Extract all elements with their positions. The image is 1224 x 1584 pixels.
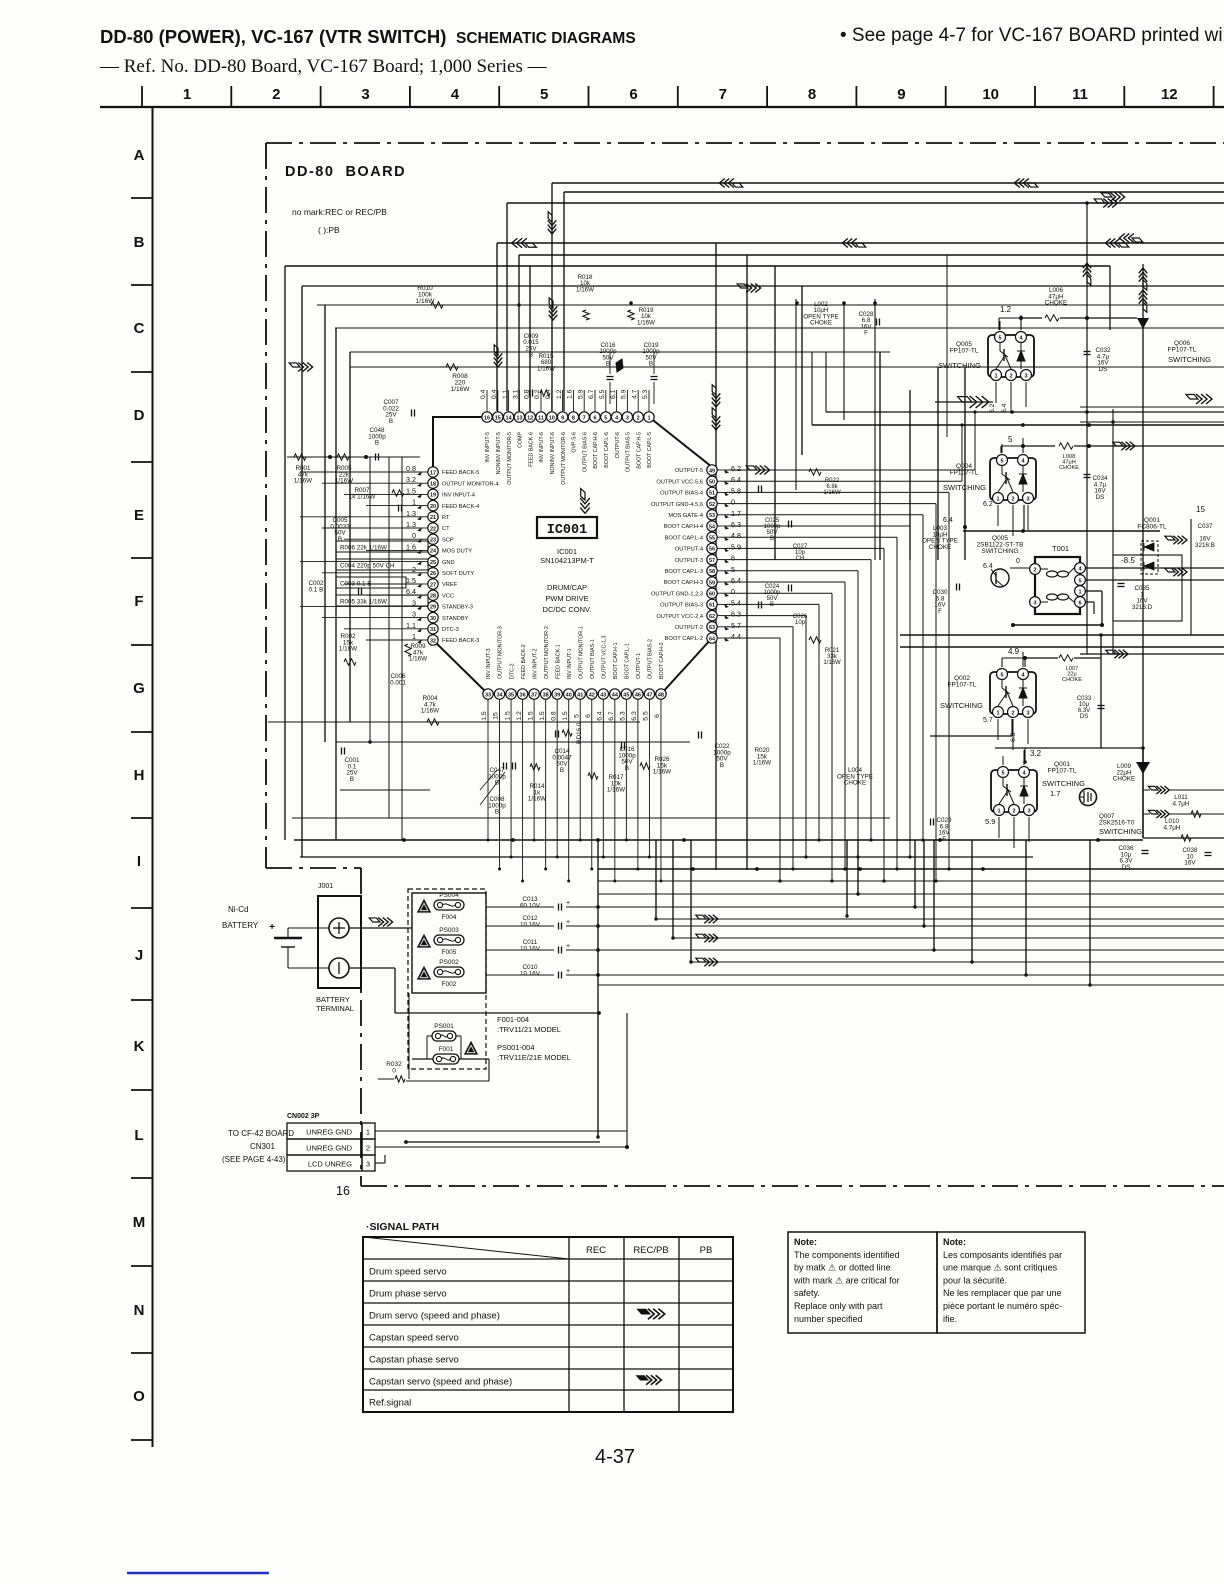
svg-text:CHOKE: CHOKE [810,320,832,327]
svg-text:F: F [134,593,143,610]
svg-text:F001-004: F001-004 [497,1015,529,1024]
svg-text:7: 7 [583,415,586,421]
svg-text:Note:: Note: [794,1237,817,1247]
svg-text:BOOT CAP.H-6: BOOT CAP.H-6 [593,432,599,469]
svg-text:0.001: 0.001 [390,679,406,686]
svg-text:4.7: 4.7 [631,389,638,399]
svg-text:53: 53 [709,513,715,519]
svg-text:6.7: 6.7 [588,389,595,399]
svg-text:PS001: PS001 [434,1023,454,1030]
svg-text:ifie.: ifie. [943,1314,957,1324]
svg-text:15: 15 [495,415,501,421]
svg-text:1.2: 1.2 [1000,305,1012,314]
svg-text:FEED BACK-3: FEED BACK-3 [442,638,479,644]
svg-text:SCP: SCP [442,537,454,543]
svg-text:F: F [864,330,868,337]
svg-text:1.5: 1.5 [481,711,488,721]
svg-text:T001: T001 [1052,544,1069,553]
svg-text:Drum servo (speed and phase): Drum servo (speed and phase) [369,1311,500,1322]
svg-text:DS: DS [1096,494,1105,501]
svg-text:44: 44 [612,692,619,698]
svg-text:5.7: 5.7 [983,717,993,724]
svg-text:6.1: 6.1 [610,389,617,399]
svg-text:PS004: PS004 [439,892,459,899]
svg-text:10 16V: 10 16V [520,945,541,952]
svg-text:B: B [770,536,774,542]
svg-text:PB: PB [700,1245,713,1256]
svg-text:6: 6 [654,714,661,718]
svg-text:OUTPUT MONITOR-5: OUTPUT MONITOR-5 [507,432,513,485]
svg-text:5.9: 5.9 [985,817,995,826]
svg-text:UNREG GND: UNREG GND [306,1144,352,1153]
svg-text:38: 38 [543,692,549,698]
svg-text:1/16W: 1/16W [823,490,841,496]
svg-text:59: 59 [709,580,715,586]
svg-text:BOOT CAP.L-3: BOOT CAP.L-3 [665,569,703,575]
svg-text:PWM DRIVE: PWM DRIVE [545,594,588,603]
svg-text:40: 40 [566,692,572,698]
svg-text:B: B [606,361,610,368]
svg-text:by matk ⚠ or dotted line: by matk ⚠ or dotted line [794,1263,891,1273]
svg-text:CH: CH [796,556,805,562]
svg-text:1: 1 [1078,589,1081,595]
svg-text:( ):PB: ( ):PB [318,225,340,235]
svg-text:5: 5 [540,86,548,103]
svg-text:F005: F005 [442,949,457,956]
svg-text:IC001: IC001 [547,523,588,538]
svg-text:1/16W: 1/16W [537,365,555,372]
svg-text:+: + [566,900,570,907]
svg-text:Capstan servo (speed and phase: Capstan servo (speed and phase) [369,1377,512,1388]
svg-text:22: 22 [430,526,436,532]
svg-text:6.7: 6.7 [608,711,615,721]
svg-text:CHOKE: CHOKE [1059,465,1079,471]
svg-text::TRV11/21 MODEL: :TRV11/21 MODEL [497,1025,561,1034]
svg-text:5: 5 [998,335,1001,341]
svg-text:25: 25 [430,560,436,566]
svg-text:— Ref. No. DD-80 Board, VC-167: — Ref. No. DD-80 Board, VC-167 Board; 1,… [99,56,548,77]
svg-text:BATTERY: BATTERY [222,921,259,930]
svg-text:F: F [938,608,942,615]
svg-text:FEED BACK-4: FEED BACK-4 [442,504,479,510]
svg-text:INV INPUT-1: INV INPUT-1 [567,648,573,679]
svg-text:pour la sécurité.: pour la sécurité. [943,1275,1007,1285]
svg-text:62: 62 [709,614,715,620]
svg-text:2: 2 [1033,567,1036,573]
svg-text:1: 1 [647,415,650,421]
svg-text:SWITCHING: SWITCHING [938,361,981,370]
svg-text:B: B [375,440,379,447]
svg-text:8: 8 [572,415,575,421]
svg-text:31: 31 [430,627,436,633]
svg-text:with mark ⚠ are critical for: with mark ⚠ are critical for [793,1275,900,1285]
svg-text:FP107-TL: FP107-TL [948,682,977,689]
svg-text:5.7: 5.7 [731,621,741,630]
svg-text:Ref.signal: Ref.signal [369,1398,411,1409]
svg-text:• See page 4-7 for VC-167 BOAR: • See page 4-7 for VC-167 BOARD printed … [840,25,1224,46]
svg-text:PS002: PS002 [439,959,459,966]
svg-text:1/16W: 1/16W [294,478,312,485]
svg-text:43: 43 [600,692,606,698]
svg-text:6.4: 6.4 [731,576,741,585]
svg-text:FP107-TL: FP107-TL [1168,347,1197,354]
svg-text:FP107-TL: FP107-TL [950,348,979,355]
svg-text:OUTPUT-3: OUTPUT-3 [675,558,703,564]
svg-text:OUTPUT GND-4,5,6: OUTPUT GND-4,5,6 [651,502,703,508]
svg-text:E: E [134,507,144,524]
svg-text:OUTPUT-2: OUTPUT-2 [675,625,703,631]
svg-text:B: B [338,536,342,543]
svg-text:1/16W: 1/16W [607,787,625,794]
svg-text:4.7μH: 4.7μH [1164,824,1181,831]
svg-text:11: 11 [1072,86,1088,103]
svg-text:6.2: 6.2 [731,464,741,473]
svg-text:+: + [566,919,570,926]
svg-text:-8.5: -8.5 [1121,556,1135,565]
svg-text:CHOKE: CHOKE [929,544,951,551]
svg-text:C004 220p 50V CH: C004 220p 50V CH [340,563,395,570]
svg-text:Replace only with part: Replace only with part [794,1301,883,1311]
svg-text:32: 32 [430,638,436,644]
svg-text:3: 3 [1026,710,1029,716]
svg-text:0.4: 0.4 [480,389,487,399]
svg-text:no mark:REC or REC/PB: no mark:REC or REC/PB [292,207,387,217]
svg-text:CHOKE: CHOKE [1113,776,1135,783]
svg-text:28: 28 [430,594,436,600]
svg-text:K: K [134,1038,145,1055]
svg-text:0.1 B: 0.1 B [309,586,324,593]
svg-text:DD-80 (POWER), VC-167 (VTR SWI: DD-80 (POWER), VC-167 (VTR SWITCH) [100,26,446,47]
svg-text:SN104213PM-T: SN104213PM-T [540,556,594,565]
svg-text:17: 17 [430,470,436,476]
svg-text:10 16V: 10 16V [520,921,541,928]
svg-text:30: 30 [430,616,436,622]
svg-text:number specified: number specified [794,1314,863,1324]
svg-text:CHOKE: CHOKE [844,780,866,787]
svg-text:37: 37 [531,692,537,698]
svg-text:DD-80 BOARD: DD-80 BOARD [285,164,406,180]
svg-text:6.2: 6.2 [983,501,993,508]
svg-text:21: 21 [430,515,436,521]
svg-text:60 10V: 60 10V [520,902,541,909]
svg-text:19: 19 [430,493,436,499]
svg-text:BOOT CAP.L-5: BOOT CAP.L-5 [647,432,653,468]
svg-text:13: 13 [516,415,522,421]
svg-text:1/16W: 1/16W [637,319,655,326]
svg-text:4.7μH: 4.7μH [1173,800,1190,807]
svg-text:9: 9 [561,415,564,421]
svg-text:Capstan speed servo: Capstan speed servo [369,1333,459,1344]
svg-text:SWITCHING: SWITCHING [943,483,986,492]
svg-text:Les composants identifiés par: Les composants identifiés par [943,1250,1062,1260]
svg-text:OUTPUT MONITOR-1: OUTPUT MONITOR-1 [578,626,584,679]
svg-text:OUTPUT VCC-2,4: OUTPUT VCC-2,4 [656,614,703,620]
svg-text:FEED BACK-5: FEED BACK-5 [442,470,479,476]
svg-text:20: 20 [430,504,436,510]
svg-text:TO CF-42 BOARD: TO CF-42 BOARD [228,1129,294,1138]
svg-text:FEED BACK-2: FEED BACK-2 [521,644,527,679]
svg-text:COMP: COMP [518,432,524,448]
svg-text:1.5: 1.5 [527,711,534,721]
svg-text:52: 52 [709,502,715,508]
svg-text:0.4: 0.4 [545,389,552,399]
svg-text:5.3: 5.3 [620,711,627,721]
svg-text:42: 42 [589,692,595,698]
svg-text:3216:D: 3216:D [1132,604,1153,611]
svg-text:4.4: 4.4 [731,632,741,641]
svg-text:DS: DS [1122,864,1131,871]
svg-text:12: 12 [527,415,533,421]
svg-text:Ni-Cd: Ni-Cd [228,905,248,914]
svg-text:SCHEMATIC DIAGRAMS: SCHEMATIC DIAGRAMS [456,30,636,47]
svg-text:OUTPUT BIAS-6: OUTPUT BIAS-6 [582,432,588,472]
svg-text:M: M [133,1214,146,1231]
svg-text:2: 2 [272,86,280,103]
svg-text:6: 6 [593,415,596,421]
svg-text:5: 5 [1000,672,1003,678]
svg-text:B: B [134,234,145,251]
svg-text:TERMINAL: TERMINAL [316,1004,354,1013]
svg-text:MOS DUTY: MOS DUTY [442,549,472,555]
svg-text:A: A [134,147,145,164]
svg-text:Capstan phase servo: Capstan phase servo [369,1355,459,1366]
svg-text:MOS GATE-4: MOS GATE-4 [668,513,703,519]
svg-text:0.8: 0.8 [550,711,557,721]
svg-text:DS: DS [1099,366,1108,373]
svg-text:DRUM/CAP: DRUM/CAP [547,583,587,592]
svg-text:3: 3 [366,1160,370,1169]
svg-text:16V: 16V [1184,860,1196,867]
svg-text:6: 6 [1078,600,1081,606]
svg-text:6: 6 [731,554,735,563]
svg-text:6.4: 6.4 [731,475,741,484]
svg-text:23: 23 [430,538,436,544]
svg-text:5: 5 [573,714,580,718]
svg-text:CHOKE: CHOKE [1062,677,1082,683]
svg-text:51: 51 [709,491,715,497]
svg-text:PS003: PS003 [439,927,459,934]
svg-text:OUTPUT MONITOR-3: OUTPUT MONITOR-3 [498,626,504,679]
svg-text:J: J [135,947,143,964]
svg-text:5: 5 [604,415,607,421]
svg-text:8: 8 [808,86,816,103]
svg-text:1/16W: 1/16W [753,760,771,767]
svg-text:1/16W: 1/16W [339,646,357,653]
svg-text:1.1: 1.1 [502,389,509,399]
svg-text:FEED BACK-6: FEED BACK-6 [528,432,534,467]
svg-text:UNREG GND: UNREG GND [306,1128,352,1137]
svg-text:3.2: 3.2 [1030,749,1042,758]
svg-text:1/16W: 1/16W [823,660,841,666]
svg-text:5.9: 5.9 [621,389,628,399]
svg-text:F: F [942,836,946,843]
svg-text:OUTPUT-1: OUTPUT-1 [636,653,642,679]
svg-text:F004: F004 [442,914,457,921]
svg-text:OUTPUT-6: OUTPUT-6 [615,432,621,458]
svg-text:SWITCHING: SWITCHING [1042,779,1085,788]
svg-text:1/16W: 1/16W [451,386,471,393]
svg-text:DS: DS [1080,714,1088,720]
svg-text:OUTPUT MONITOR-4: OUTPUT MONITOR-4 [442,481,499,487]
svg-text:46: 46 [635,692,641,698]
svg-text:B: B [560,767,564,774]
svg-text:SWITCHING: SWITCHING [1168,355,1211,364]
svg-text:OUTPUT GND-1,2,3: OUTPUT GND-1,2,3 [651,591,703,597]
svg-text:OUTPUT BIAS-5: OUTPUT BIAS-5 [626,432,632,472]
svg-text:2: 2 [637,415,640,421]
svg-text:BOOT CAP.L-2: BOOT CAP.L-2 [665,636,703,642]
svg-text:2: 2 [1009,373,1012,379]
svg-text:OUTPUT MONITOR-6: OUTPUT MONITOR-6 [561,432,567,485]
svg-text:3: 3 [626,415,629,421]
svg-text:0.8: 0.8 [523,389,530,399]
svg-text:6.4: 6.4 [597,711,604,721]
svg-text:H: H [134,767,145,784]
svg-text:15: 15 [493,712,500,720]
svg-text:6.4: 6.4 [983,563,993,570]
svg-text:BOOT CAP.H-3: BOOT CAP.H-3 [664,580,703,586]
svg-text:GND: GND [442,560,455,566]
svg-text:BOOT CAP.L-6: BOOT CAP.L-6 [604,432,610,468]
svg-text:10: 10 [549,415,555,421]
svg-text:CN301: CN301 [250,1142,275,1151]
svg-text:SWITCHING: SWITCHING [940,701,983,710]
svg-text:B: B [495,809,499,816]
svg-text:FP107-TL: FP107-TL [950,470,979,477]
svg-text:64: 64 [709,636,716,642]
svg-text:63: 63 [709,625,715,631]
svg-text:60: 60 [709,592,715,598]
svg-text:DC/DC CONV.: DC/DC CONV. [543,605,592,614]
svg-text:REC: REC [586,1245,606,1256]
svg-text:5: 5 [1078,578,1081,584]
svg-text:50: 50 [709,480,715,486]
svg-text:OUTPUT BIAS-1: OUTPUT BIAS-1 [590,639,596,679]
svg-text:The components identified: The components identified [794,1250,900,1260]
svg-text:5.4: 5.4 [731,598,741,607]
svg-text:BOOT CAP.L-4: BOOT CAP.L-4 [665,535,703,541]
svg-text:·SIGNAL PATH: ·SIGNAL PATH [366,1221,439,1233]
svg-text:1/16W: 1/16W [528,796,546,803]
svg-text:STANDBY-3: STANDBY-3 [442,605,473,611]
svg-text:PS001-004: PS001-004 [497,1043,535,1052]
svg-text:J001: J001 [318,883,333,890]
svg-text:LCD UNREG: LCD UNREG [308,1160,352,1169]
svg-text:B: B [720,762,724,769]
svg-text:VREF: VREF [442,582,458,588]
svg-text:BOOT CAP.H-1: BOOT CAP.H-1 [613,642,619,679]
svg-text:35: 35 [508,692,514,698]
svg-text:6: 6 [585,714,592,718]
svg-text:F002: F002 [442,981,457,988]
svg-text:+: + [269,922,275,933]
svg-text:IC001: IC001 [557,547,577,556]
svg-text:BOOT CAP.H-5: BOOT CAP.H-5 [636,432,642,469]
svg-text:1: 1 [366,1128,370,1137]
svg-text:N: N [134,1302,145,1319]
svg-text:INV INPUT-3: INV INPUT-3 [486,648,492,679]
svg-text:C037: C037 [1197,523,1213,530]
svg-text:15: 15 [1196,505,1205,514]
svg-text:2: 2 [1012,808,1015,814]
svg-text:16: 16 [336,1184,350,1198]
svg-text:5: 5 [1000,458,1003,464]
svg-text:54: 54 [709,524,716,530]
svg-text:16: 16 [484,415,490,421]
svg-text:1.7: 1.7 [1050,789,1060,798]
svg-text:STANDBY: STANDBY [442,616,469,622]
svg-text:39: 39 [554,692,560,698]
svg-text:Ne les remplacer que par une: Ne les remplacer que par une [943,1288,1062,1298]
svg-text:RT: RT [442,515,450,521]
svg-text:1/16W: 1/16W [409,656,427,663]
svg-text:1.2: 1.2 [556,389,563,399]
svg-text:11: 11 [538,415,544,421]
svg-text:1: 1 [996,496,999,502]
svg-text:CN002 3P: CN002 3P [287,1113,320,1120]
svg-text:INV INPUT-2: INV INPUT-2 [532,648,538,679]
svg-text:1.7: 1.7 [731,509,741,518]
svg-text:26: 26 [430,571,436,577]
svg-text:F001: F001 [439,1046,454,1053]
svg-text:B: B [529,352,533,359]
svg-text:41: 41 [577,692,583,698]
svg-text:1.6: 1.6 [567,389,574,399]
svg-text:56: 56 [709,547,715,553]
svg-text:29: 29 [430,605,436,611]
svg-text::TRV11E/21E MODEL: :TRV11E/21E MODEL [497,1053,571,1062]
svg-text:OVP-5-6: OVP-5-6 [572,432,578,453]
svg-text:NONINV INPUT-5: NONINV INPUT-5 [496,432,502,474]
svg-text:1.5: 1.5 [504,711,511,721]
svg-text:1: 1 [996,710,999,716]
svg-text:3216:B: 3216:B [1195,542,1215,549]
svg-text:OUTPUT BIAS-3: OUTPUT BIAS-3 [660,603,703,609]
svg-text:+: + [566,968,570,975]
svg-text:5: 5 [1001,770,1004,776]
svg-text:C: C [134,320,145,337]
svg-text:2: 2 [1011,710,1014,716]
svg-text:6.3: 6.3 [631,711,638,721]
svg-text:INV INPUT-4: INV INPUT-4 [442,493,475,499]
svg-text:OUTPUT VCC-1,3: OUTPUT VCC-1,3 [602,635,608,679]
svg-text:36: 36 [520,692,526,698]
svg-text:INV INPUT-6: INV INPUT-6 [539,432,545,463]
svg-text:3: 3 [361,86,369,103]
svg-text:2: 2 [1011,496,1014,502]
svg-text:L: L [134,1127,143,1144]
svg-text:R005 33k 1/16W: R005 33k 1/16W [340,599,387,606]
svg-text:6.3: 6.3 [731,610,741,619]
svg-text:5.8: 5.8 [731,486,741,495]
svg-text:48: 48 [658,692,664,698]
svg-text:61: 61 [709,603,715,609]
svg-text:DTC-3: DTC-3 [442,627,459,633]
svg-text:3: 3 [1033,600,1036,606]
svg-text:14: 14 [506,415,513,421]
svg-text:1.2: 1.2 [516,711,523,721]
svg-text:SOFT DUTY: SOFT DUTY [442,571,474,577]
svg-text:10p: 10p [795,620,806,626]
svg-text:3: 3 [1024,373,1027,379]
svg-text:FC806-TL: FC806-TL [1137,524,1167,531]
svg-text:VCC: VCC [442,593,454,599]
svg-text:(SEE PAGE 4-43): (SEE PAGE 4-43) [222,1155,286,1164]
svg-text:1: 1 [997,808,1000,814]
svg-text:0: 0 [1016,558,1020,565]
svg-text:RD16.0: RD16.0 [576,722,583,744]
svg-text:OUTPUT BIAS-4: OUTPUT BIAS-4 [660,491,703,497]
